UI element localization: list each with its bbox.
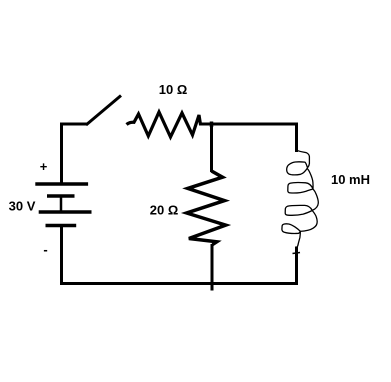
- wire: bottom horizontal return wire: [60, 282, 298, 285]
- svg-text:-: -: [43, 242, 47, 257]
- svg-text:20 Ω: 20 Ω: [150, 203, 179, 218]
- battery B1 inter-cell connector: [60, 195, 63, 212]
- battery B1 positive long plate (top cell): [35, 182, 88, 186]
- wire: top-left horizontal segment from left branch to switch pivot: [60, 123, 87, 126]
- wire: middle branch vertical from top wire down to resistor R2: [210, 124, 213, 172]
- battery B1 negative short plate (bottom cell): [46, 224, 77, 228]
- svg-text:10 Ω: 10 Ω: [159, 82, 188, 97]
- svg-text:+: +: [40, 159, 48, 174]
- svg-text:10 mH: 10 mH: [331, 172, 370, 187]
- wire: right vertical from top-right corner down to inductor: [295, 123, 298, 153]
- wire: middle branch bottom lead crossing bottom wire: [211, 244, 214, 291]
- inductor L1 hand-drawn coil: [282, 150, 318, 247]
- wire: small tick at inductor bottom lead: [293, 253, 301, 254]
- wire: top horizontal from resistor R1 to top-right corner: [199, 123, 298, 126]
- switch S1 (open blade): [86, 96, 121, 126]
- wire: left vertical from switch down to battery positive plate: [60, 123, 63, 186]
- resistor R1 10 ohm horizontal zigzag: [127, 112, 201, 137]
- battery B1 negative short plate (top cell): [47, 194, 75, 198]
- wire: right vertical from inductor down to bottom-right corner: [295, 247, 298, 286]
- node: junction of middle branch with top wire: [210, 122, 214, 128]
- svg-text:30 V: 30 V: [9, 199, 36, 214]
- battery B1 positive long plate (bottom cell): [39, 210, 92, 214]
- resistor R2 20 ohm vertical zigzag: [187, 171, 226, 245]
- wire: left vertical from battery negative down to bottom-left corner: [60, 226, 63, 286]
